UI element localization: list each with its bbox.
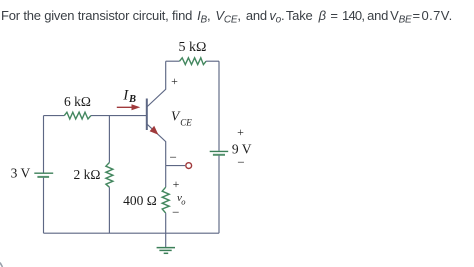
wire: output stub <box>166 165 185 167</box>
wire: emitter branch above 400 ohm <box>165 166 167 188</box>
wire: base rail right segment <box>91 115 146 117</box>
label 9 V <box>232 142 252 157</box>
battery 9 V <box>210 151 229 154</box>
resistor 2 kOhm <box>106 163 113 188</box>
svg-text:−: − <box>172 205 179 220</box>
transistor Q1: emitter arrow <box>150 126 159 135</box>
wire: right rail lower <box>218 156 220 234</box>
resistor 400 Ohm <box>162 187 169 213</box>
wire: bottom rail <box>44 232 220 234</box>
label 400 Ohm <box>123 193 157 208</box>
transistor Q1: collector lead <box>147 61 166 107</box>
svg-text:+: + <box>171 74 178 88</box>
label vo plus <box>173 177 180 191</box>
svg-text:B: B <box>128 94 136 105</box>
wire: base rail left segment <box>44 115 65 117</box>
label 9 V minus <box>237 155 244 170</box>
current arrow I_B <box>117 104 141 110</box>
battery 3 V <box>34 173 53 177</box>
label V_CE <box>171 108 192 127</box>
svg-text:CE: CE <box>180 117 192 127</box>
svg-text:5 kΩ: 5 kΩ <box>179 40 207 55</box>
label 6 kOhm <box>64 94 91 109</box>
ground <box>157 233 175 253</box>
svg-text:+: + <box>237 125 244 139</box>
node vo open terminal <box>186 163 192 169</box>
label v_o <box>177 192 186 206</box>
wire: top rail left segment <box>166 60 180 62</box>
svg-text:−: − <box>170 149 177 164</box>
wire: emitter branch below 400 ohm <box>165 213 167 233</box>
label 9 V plus <box>237 125 244 139</box>
wire: left rail upper (3V branch) <box>43 116 45 173</box>
wire: 2k branch bottom <box>108 187 110 233</box>
stray mark bottom-left corner <box>0 263 3 267</box>
wire: top rail right segment <box>206 60 219 62</box>
transistor Q1: bar <box>146 99 148 131</box>
svg-text:6 kΩ: 6 kΩ <box>64 94 91 109</box>
label V_CE plus <box>171 74 178 88</box>
svg-text:400 Ω: 400 Ω <box>123 193 157 208</box>
resistor 5 kOhm <box>180 58 207 65</box>
wire: right rail upper <box>218 61 220 151</box>
svg-text:2 kΩ: 2 kΩ <box>74 167 101 182</box>
resistor 6 kOhm <box>64 112 91 119</box>
svg-text:o: o <box>181 196 185 206</box>
wire: 2k branch top <box>108 116 110 163</box>
label 2 kOhm <box>74 167 101 182</box>
label 5 kOhm <box>179 40 207 55</box>
svg-text:+: + <box>173 177 180 191</box>
transistor Q1: emitter lead <box>147 124 166 166</box>
svg-text:3 V: 3 V <box>11 165 31 180</box>
label 3 V <box>11 165 31 180</box>
svg-text:−: − <box>237 155 244 170</box>
label vo minus <box>172 205 179 220</box>
label I_B <box>122 87 136 105</box>
wire: left rail lower <box>43 178 45 234</box>
label V_CE minus <box>170 149 177 164</box>
